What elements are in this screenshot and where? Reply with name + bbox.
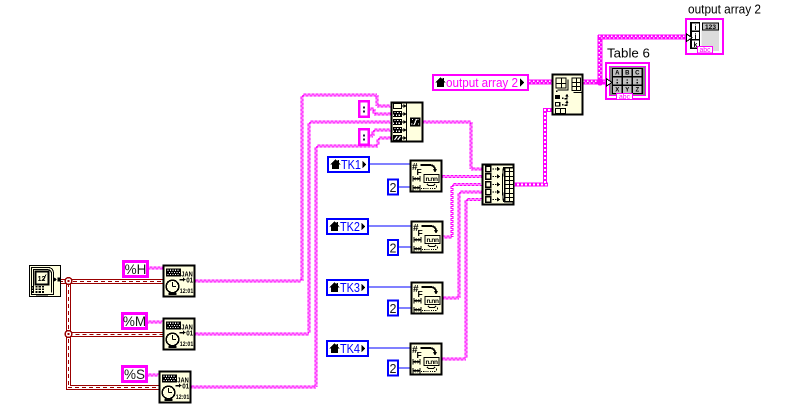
svg-text:12:01: 12:01 — [176, 394, 190, 401]
node: Build Array — [483, 165, 514, 205]
svg-text:C: C — [635, 71, 640, 77]
wire: 1-D string array build array -> insert into array element — [512, 108, 555, 187]
indicator output array 2 terminal — [686, 19, 723, 54]
svg-text:TK2: TK2 — [340, 219, 360, 234]
svg-text:n.nn: n.nn — [425, 176, 438, 183]
node: Insert Into Array — [553, 75, 584, 115]
wire: colon constant 1 -> concatenate in2 — [369, 108, 392, 115]
wire: colon constant 2 -> concatenate in4 — [368, 129, 392, 137]
svg-text:j: j — [694, 34, 697, 41]
svg-text:2: 2 — [390, 362, 397, 376]
wire: TK1 string -> build array in2 — [441, 176, 483, 178]
numeric constant 2 (row TK3) — [387, 300, 399, 317]
svg-text:%M: %M — [123, 314, 146, 329]
svg-text:F: F — [418, 228, 423, 238]
numeric constant 2 (row TK4) — [387, 360, 399, 377]
svg-text:B: B — [625, 71, 630, 77]
svg-text:F: F — [417, 167, 422, 177]
svg-text:Table 6: Table 6 — [607, 46, 650, 61]
local variable output array 2 — [433, 75, 528, 90]
svg-text:01: 01 — [182, 384, 189, 391]
wire: constant 2 -> N2FS2 precision input — [398, 246, 412, 248]
svg-text:abc: abc — [619, 94, 630, 101]
svg-text:Y: Y — [625, 88, 629, 94]
wire: minutes string FDTS2 -> concatenate in3 — [194, 121, 392, 335]
wire: %S constant -> FDTS3 format input — [147, 374, 160, 376]
svg-text:output array 2: output array 2 — [446, 75, 518, 90]
node: Number To Fractional String 4 — [411, 344, 442, 375]
wire: %H constant -> FDTS1 format input — [148, 267, 164, 269]
svg-text:i: i — [695, 25, 697, 32]
svg-text:n.nn: n.nn — [426, 298, 439, 305]
svg-text:TK4: TK4 — [340, 341, 360, 356]
wire: seconds string FDTS3 -> concatenate in5 — [190, 137, 392, 388]
node: Format Date/Time String 3 — [160, 372, 191, 403]
wire: constant 2 -> N2FS4 precision input — [398, 367, 411, 369]
node: Format Date/Time String 2 — [164, 319, 195, 350]
string constant colon 1 — [358, 100, 370, 118]
wire: TK2 local -> N2FS2 number input — [368, 225, 412, 227]
wire: 2-D array local output array 2 -> insert into array — [528, 80, 553, 85]
wire: TK2 string -> build array in3 — [441, 184, 483, 239]
wire: TK4 string -> build array in5 — [441, 199, 483, 361]
svg-text:TK1: TK1 — [341, 157, 361, 172]
svg-text:k: k — [694, 42, 698, 49]
svg-text:n.nn: n.nn — [426, 237, 439, 244]
node: Number To Fractional String 3 — [412, 283, 443, 314]
svg-text:%H: %H — [125, 262, 147, 277]
wire: timestamp elbow -> Format Date/Time String 3 — [66, 385, 160, 390]
node: Concatenate Strings — [392, 103, 423, 142]
string constant colon 2 — [358, 128, 370, 146]
svg-text:12:01: 12:01 — [180, 288, 194, 295]
wire: TK3 string -> build array in4 — [442, 191, 483, 299]
svg-text:2: 2 — [390, 242, 397, 256]
svg-text:123: 123 — [705, 24, 716, 31]
wire: timestamp trunk vertical — [66, 281, 71, 390]
node: Number To Fractional String 1 — [411, 161, 442, 192]
label Table 6 — [607, 46, 650, 61]
wire: hours string FDTS1 -> concatenate in1 — [194, 94, 392, 282]
svg-text:Z: Z — [635, 88, 639, 94]
wire: TK3 local -> N2FS3 number input — [368, 286, 412, 288]
svg-text:2: 2 — [390, 181, 397, 195]
wire: 2-D array branch up — [598, 35, 603, 82]
node: Number To Fractional String 2 — [412, 222, 443, 253]
node: Format Date/Time String 1 — [164, 266, 195, 297]
wire: %M constant -> FDTS2 format input — [147, 321, 164, 323]
svg-text:n.nn: n.nn — [425, 359, 438, 366]
svg-text:01: 01 — [186, 331, 193, 338]
string constant %H — [122, 260, 149, 278]
wire: constant 2 -> N2FS1 precision input — [398, 186, 411, 188]
wire: TK1 local -> N2FS1 number input — [368, 163, 411, 165]
wire: constant 2 -> N2FS3 precision input — [398, 307, 412, 309]
string constant %S — [121, 365, 148, 383]
svg-text:%S: %S — [124, 367, 145, 382]
svg-text:F: F — [417, 350, 422, 360]
string constant %M — [121, 312, 148, 330]
junction on 2-D array wire — [596, 78, 603, 85]
wire: timestamp branch -> Format Date/Time String 2 — [69, 332, 165, 337]
wire: timestamp Get Date/Time -> Format Date/Time String 1 — [59, 279, 164, 284]
local variable TK1 — [328, 157, 369, 172]
svg-text:X: X — [615, 88, 619, 94]
wire: 2-D array insert into array -> Table 6 — [582, 80, 607, 85]
svg-text:output array 2: output array 2 — [688, 2, 761, 17]
svg-text:abc: abc — [700, 47, 711, 54]
svg-text:01: 01 — [186, 278, 193, 285]
indicator Table 6 terminal — [606, 63, 649, 101]
local variable TK3 — [327, 280, 368, 295]
wire: TK4 local -> N2FS4 number input — [368, 347, 411, 349]
svg-text:2: 2 — [390, 302, 397, 316]
junction J2 on timestamp wire — [65, 331, 72, 338]
wire: concatenated time string -> build array in1 — [422, 121, 483, 170]
svg-text:TK3: TK3 — [340, 280, 360, 295]
local variable TK2 — [327, 219, 368, 234]
junction J1 on timestamp wire — [65, 278, 72, 285]
numeric constant 2 (row TK1) — [387, 179, 399, 196]
label output array 2 — [688, 2, 761, 17]
svg-text:F: F — [418, 289, 423, 299]
svg-text:A: A — [615, 71, 620, 77]
numeric constant 2 (row TK2) — [387, 239, 399, 256]
local variable TK4 — [327, 341, 368, 356]
node: Get Date/Time In Seconds — [30, 266, 61, 297]
svg-text:12:01: 12:01 — [180, 341, 194, 348]
wire: 2-D array -> output array 2 indicator — [598, 35, 687, 40]
